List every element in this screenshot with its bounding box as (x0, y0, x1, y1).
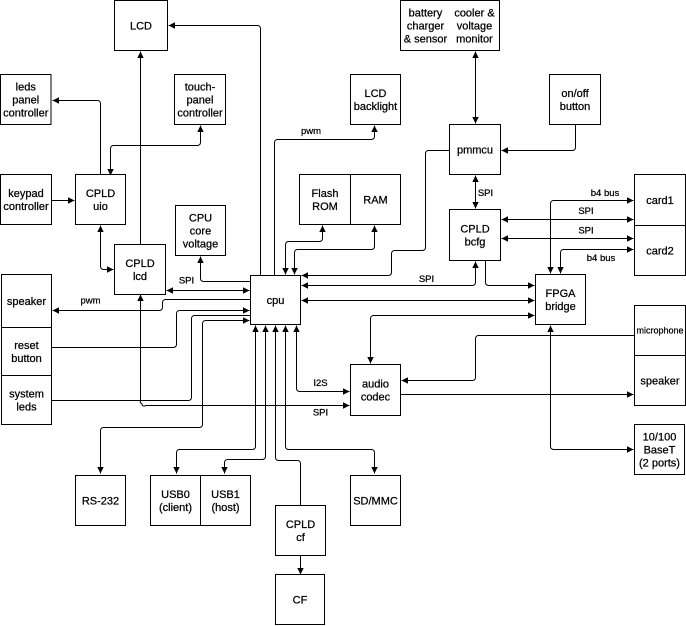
svg-text:leds: leds (16, 81, 37, 93)
block keypad controller (1, 175, 52, 225)
svg-text:leds: leds (16, 401, 37, 413)
block battery charger & sensor / cooler & voltage monitor (401, 1, 500, 51)
svg-text:Flash: Flash (312, 188, 339, 200)
wire SPI CPLD bcfg to card1 (502, 216, 634, 222)
svg-text:core: core (190, 225, 211, 237)
svg-text:LCD: LCD (130, 20, 152, 32)
svg-text:SPI: SPI (179, 276, 194, 287)
block system leds (2, 376, 52, 425)
svg-text:USB1: USB1 (211, 489, 240, 501)
svg-text:bridge: bridge (545, 301, 576, 313)
svg-text:USB0: USB0 (161, 489, 190, 501)
wire on/off button to pmmcu (502, 125, 576, 154)
svg-text:10/100: 10/100 (643, 431, 677, 443)
block CPU core voltage (176, 206, 226, 256)
block touch-panel controller (175, 75, 226, 125)
block CPLD cf (276, 506, 326, 556)
block speaker (right) (635, 356, 686, 406)
block card1 (635, 175, 686, 226)
block SD/MMC (351, 476, 401, 526)
svg-text:button: button (560, 101, 591, 113)
wire SPI pmmcu to CPLD bcfg (472, 176, 478, 209)
svg-text:touch-: touch- (185, 81, 216, 93)
block CPLD uio (76, 175, 126, 225)
svg-text:SPI: SPI (478, 188, 493, 199)
svg-text:& sensor: & sensor (404, 33, 448, 45)
svg-text:pwm: pwm (301, 126, 321, 137)
svg-text:SPI: SPI (419, 274, 434, 285)
svg-text:LCD: LCD (364, 88, 386, 100)
svg-text:pwm: pwm (80, 296, 100, 307)
wire keypad controller to CPLD uio (52, 197, 75, 203)
block LCD (115, 1, 168, 51)
svg-text:keypad: keypad (8, 188, 43, 200)
wire battery monitor to pmmcu (472, 52, 478, 124)
wire cpu to CPU core voltage (197, 257, 250, 282)
wire pwm cpu to speaker (53, 300, 251, 314)
svg-text:cf: cf (296, 532, 306, 544)
wire pmmcu to cpu (302, 151, 450, 279)
block audio codec (351, 365, 401, 416)
block pmmcu (450, 125, 501, 175)
svg-text:(client): (client) (159, 502, 192, 514)
svg-text:SPI: SPI (578, 206, 593, 217)
svg-text:SPI: SPI (578, 226, 593, 237)
wire cpu to USB1 (221, 326, 268, 474)
block CPLD bcfg (450, 210, 501, 261)
svg-text:FPGA: FPGA (546, 288, 577, 300)
svg-text:(2 ports): (2 ports) (639, 457, 680, 469)
svg-text:CPLD: CPLD (86, 188, 115, 200)
wire cpu to CPLD cf (272, 326, 300, 506)
svg-text:microphone: microphone (636, 326, 683, 336)
wire cpu to FPGA bridge (302, 297, 535, 303)
block CF (276, 575, 325, 625)
block LCD backlight (351, 75, 401, 125)
wire CPLD cf to CF (297, 556, 303, 575)
svg-text:CPLD: CPLD (460, 223, 489, 235)
svg-text:voltage: voltage (183, 238, 218, 250)
svg-text:bcfg: bcfg (465, 236, 486, 248)
svg-text:battery: battery (409, 7, 443, 19)
svg-text:speaker: speaker (7, 296, 46, 308)
block speaker (left) (2, 275, 52, 328)
svg-text:pmmcu: pmmcu (457, 144, 493, 156)
wire cpu to SD/MMC (282, 326, 377, 474)
svg-text:codec: codec (361, 391, 391, 403)
svg-text:lcd: lcd (133, 271, 147, 283)
svg-text:card2: card2 (646, 245, 674, 257)
svg-text:button: button (11, 353, 42, 365)
wire cpu to RAM (291, 226, 377, 275)
wire audio codec to speaker (401, 391, 634, 397)
wire SPI CPLD bcfg to card2 (502, 235, 634, 241)
block 10/100 BaseT (2 ports) (635, 425, 685, 475)
wire reset button to cpu (52, 307, 250, 347)
svg-text:controller: controller (3, 201, 49, 213)
svg-text:RS-232: RS-232 (82, 495, 119, 507)
svg-text:RAM: RAM (363, 194, 387, 206)
block on/off button (550, 75, 601, 125)
wire CPLD uio to touch-panel controller (107, 126, 203, 176)
wire microphone to audio codec (402, 336, 635, 384)
svg-text:CPLD: CPLD (286, 519, 315, 531)
svg-text:system: system (9, 388, 44, 400)
svg-text:CPLD: CPLD (125, 258, 154, 270)
svg-text:ROM: ROM (312, 201, 338, 213)
wire I2S cpu to audio codec (293, 326, 349, 395)
svg-text:cpu: cpu (267, 295, 285, 307)
svg-text:backlight: backlight (354, 101, 397, 113)
wire FPGA bridge to 10/100 BaseT (547, 326, 633, 453)
svg-text:cooler &: cooler & (454, 7, 495, 19)
wire pwm cpu to LCD backlight (275, 126, 378, 276)
block cpu (251, 276, 301, 325)
block CPLD lcd (115, 245, 166, 295)
wire cpu to Flash ROM (282, 226, 325, 275)
block RS-232 (76, 476, 126, 526)
wire CPLD uio to CPLD lcd (97, 226, 113, 273)
block leds panel controller (1, 75, 52, 125)
wire cpu to USB0 (173, 326, 258, 474)
svg-text:controller: controller (177, 107, 223, 119)
svg-text:voltage: voltage (457, 20, 492, 32)
wire RS-232 to cpu (97, 317, 249, 473)
svg-text:panel: panel (187, 94, 214, 106)
svg-text:(host): (host) (211, 502, 239, 514)
svg-text:I2S: I2S (313, 378, 327, 389)
svg-text:b4 bus: b4 bus (587, 253, 616, 264)
wire SPI branch to audio codec (140, 401, 349, 409)
svg-text:monitor: monitor (456, 33, 493, 45)
svg-text:panel: panel (12, 94, 39, 106)
svg-text:CF: CF (293, 594, 308, 606)
block FPGA bridge (536, 275, 586, 325)
wire SPI cpu to CPLD bcfg (302, 262, 479, 289)
svg-text:speaker: speaker (640, 375, 679, 387)
svg-text:audio: audio (362, 378, 389, 390)
svg-text:controller: controller (3, 107, 49, 119)
wire cpu to CPLD lcd and system leds (52, 316, 251, 401)
wire cpu to LCD (169, 22, 261, 275)
wire branch to CPLD lcd (137, 295, 143, 401)
wire b4 bus FPGA bridge to card2 (557, 246, 633, 273)
svg-text:SPI: SPI (313, 408, 328, 419)
wire b4 bus FPGA bridge to card1 (547, 197, 633, 273)
svg-text:charger: charger (407, 20, 445, 32)
svg-text:on/off: on/off (561, 88, 589, 100)
block card2 (635, 226, 686, 276)
wire FPGA bridge to audio codec (367, 312, 534, 363)
svg-text:b4 bus: b4 bus (591, 188, 620, 199)
svg-text:SD/MMC: SD/MMC (353, 495, 398, 507)
block microphone (635, 306, 686, 356)
svg-text:card1: card1 (646, 195, 674, 207)
block USB0 (client) (151, 476, 201, 526)
block RAM (351, 175, 401, 225)
svg-text:reset: reset (14, 340, 38, 352)
block reset button (2, 328, 52, 376)
svg-text:uio: uio (93, 201, 108, 213)
wire CPLD bcfg to FPGA bridge (486, 261, 535, 289)
wire CPLD uio to leds panel controller (53, 97, 101, 174)
wire SPI CPLD lcd to cpu (167, 287, 250, 293)
block USB1 (host) (201, 476, 251, 526)
svg-text:CPU: CPU (189, 212, 212, 224)
svg-text:BaseT: BaseT (644, 444, 676, 456)
wire CPLD lcd to LCD (137, 52, 143, 245)
block Flash ROM (300, 175, 351, 225)
